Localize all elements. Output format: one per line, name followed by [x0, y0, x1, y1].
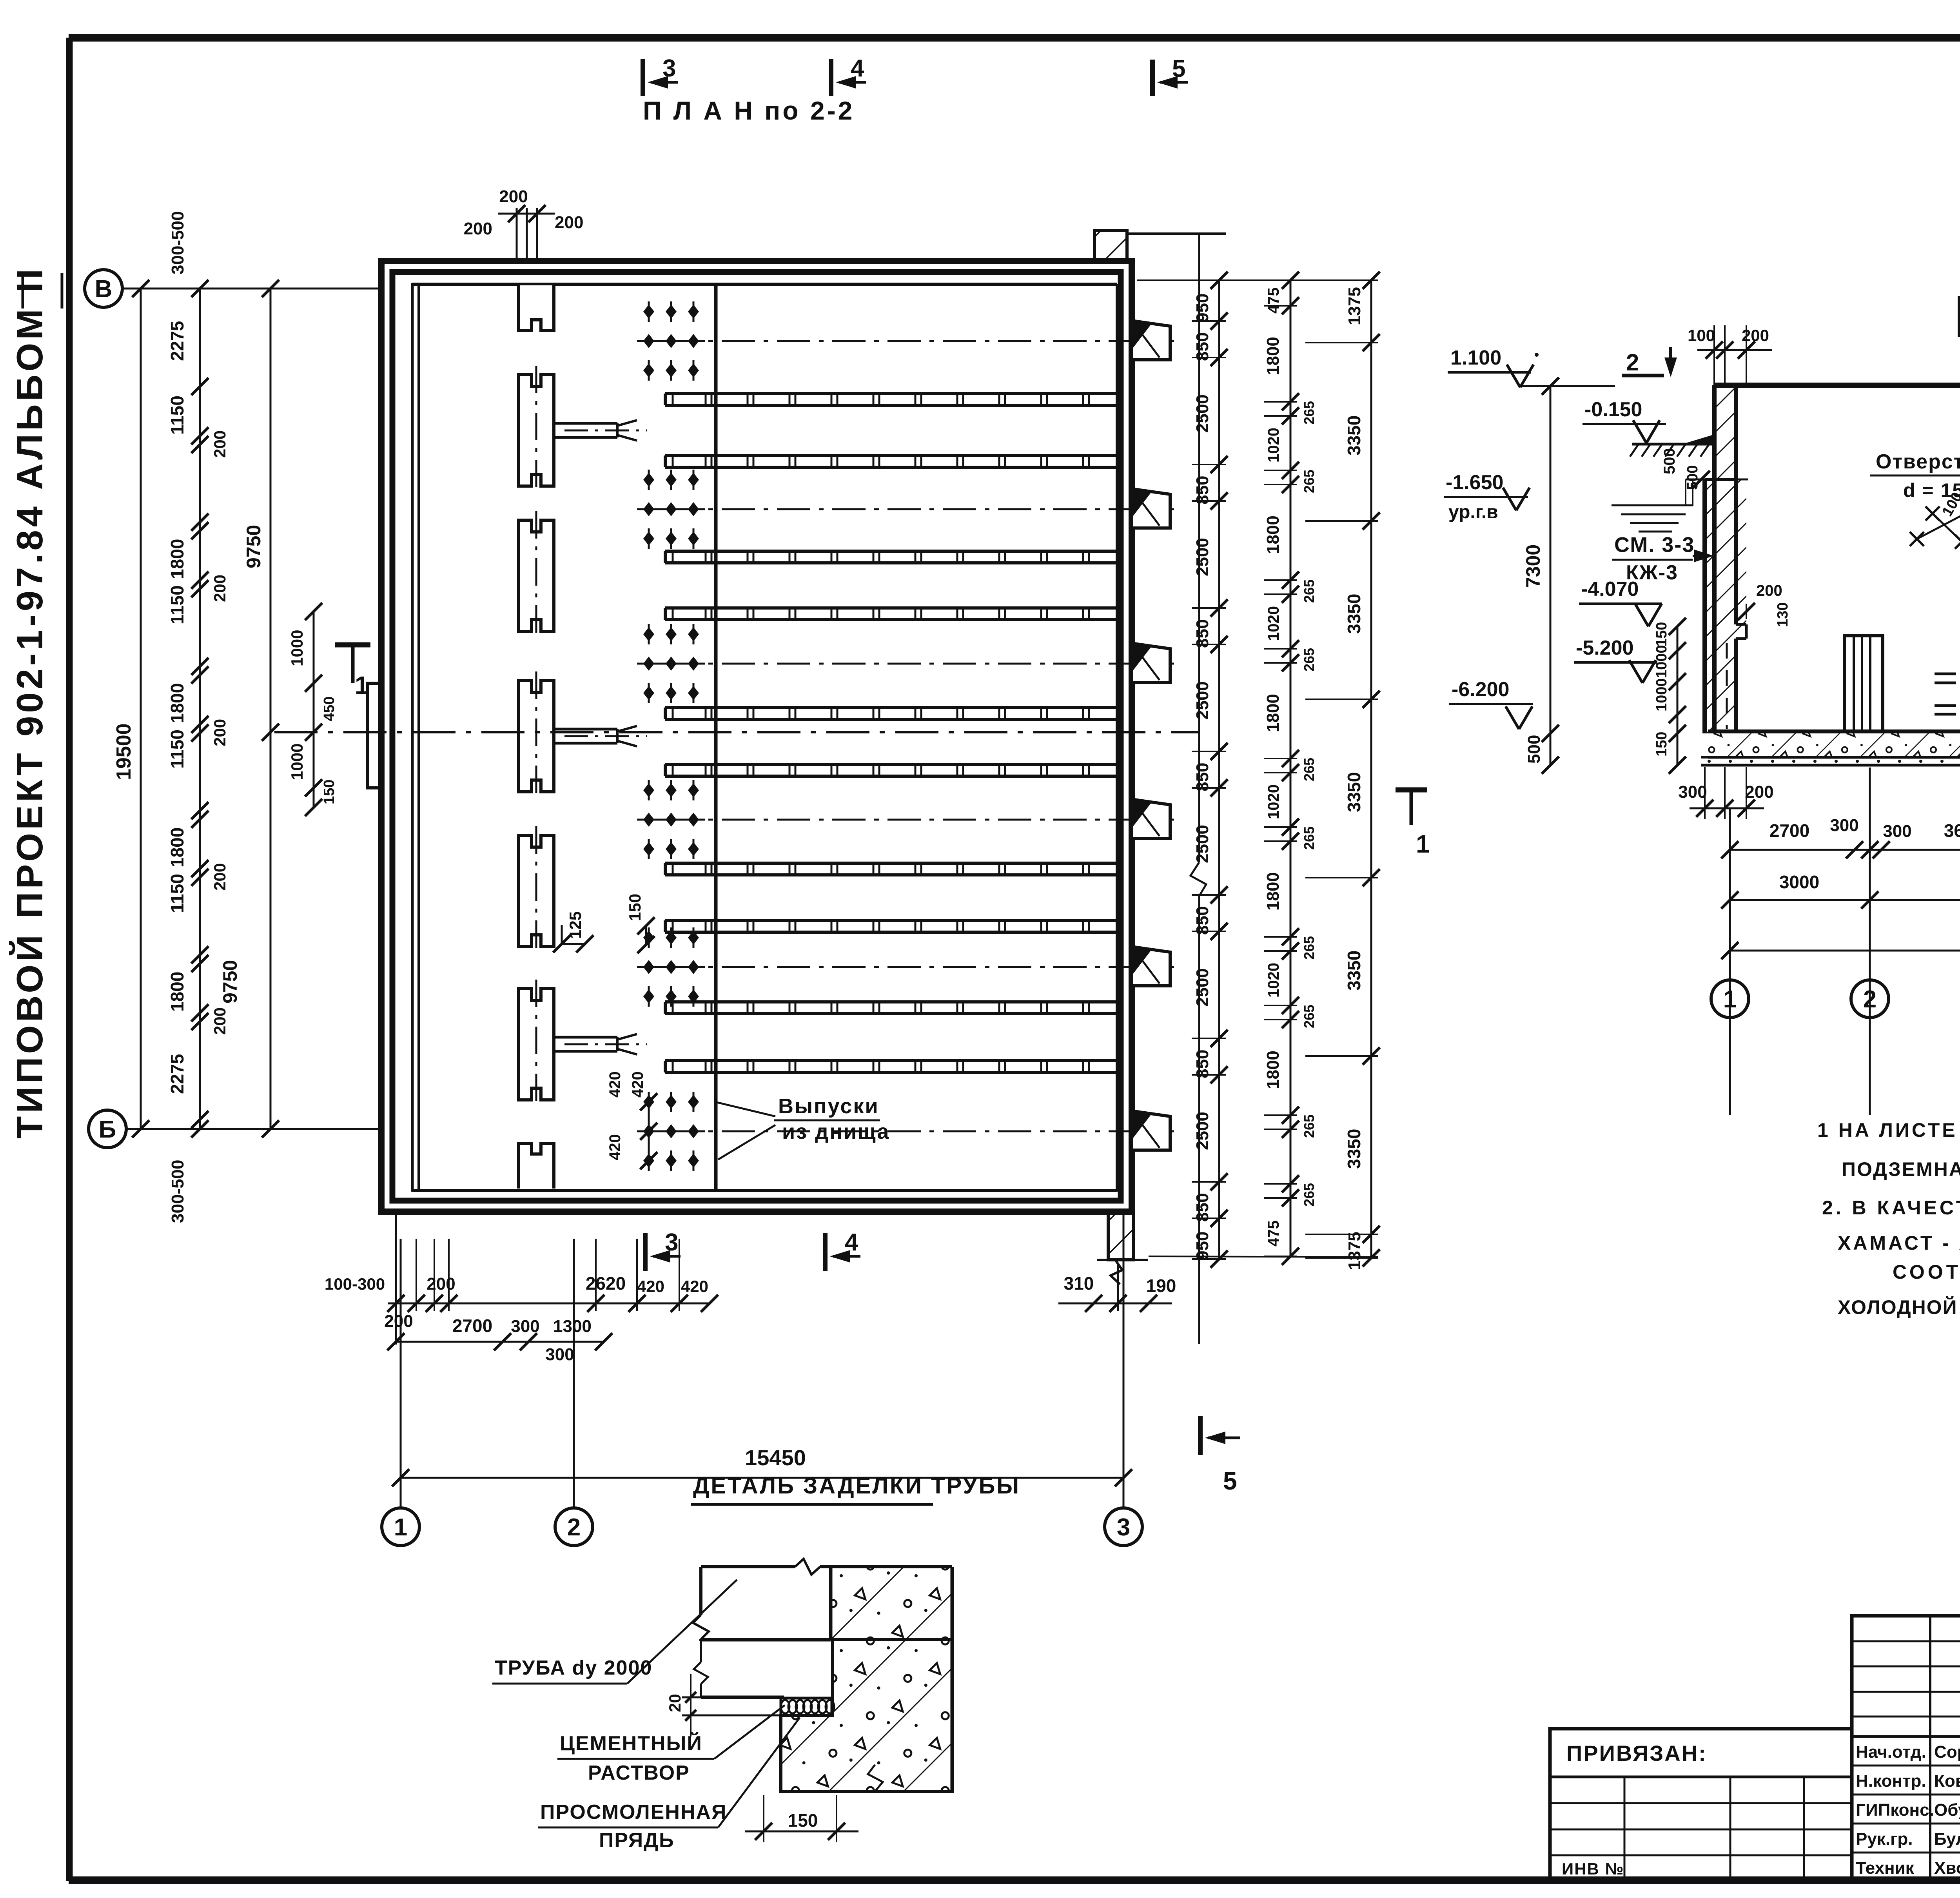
axis circle 3 plan: [1105, 1508, 1142, 1546]
svg-text:1 НА ЛИСТЕ УСЛОВНО ПОК: 1 НА ЛИСТЕ УСЛОВНО ПОКАЗАНА МОНОЛИТНАЯ: [1817, 1119, 1960, 1141]
section floor slab: [1708, 729, 1960, 733]
svg-text:2275: 2275: [167, 1054, 187, 1094]
svg-text:265: 265: [1301, 401, 1317, 425]
plan channel centerline 2: [666, 508, 1174, 510]
section ground bench wedge: [1686, 435, 1715, 444]
section dim 500 wall step: [1686, 479, 1748, 481]
plan inner wall line top: [412, 283, 1117, 286]
section bottom chain row3: [1730, 950, 1960, 952]
axis circle 1 plan: [382, 1508, 419, 1546]
svg-text:ТИПОВОЙ ПРОЕКТ 902-1-97.84: ТИПОВОЙ ПРОЕКТ 902-1-97.84 АЛЬБОМ II: [9, 266, 50, 1139]
section left wall hatch: [1714, 385, 1736, 479]
svg-text:265: 265: [1301, 936, 1317, 960]
svg-text:Б: Б: [99, 1116, 116, 1143]
svg-text:-6.200: -6.200: [1452, 678, 1509, 701]
plan column 7 (half, bottom): [519, 1143, 554, 1189]
svg-text:1800: 1800: [1263, 515, 1283, 554]
detail wall top edge: [701, 1565, 795, 1568]
svg-text:420: 420: [606, 1071, 624, 1098]
plan channel bar 1: [665, 392, 1117, 395]
svg-text:-0.150: -0.150: [1584, 398, 1642, 421]
svg-text:1150: 1150: [167, 585, 187, 624]
svg-text:150: 150: [1653, 622, 1670, 647]
dimension chain plan bottom row2: [396, 1341, 604, 1343]
svg-text:265: 265: [1301, 648, 1317, 671]
plan column 1 (half, top): [519, 285, 554, 330]
plan inner wall line bottom: [412, 1189, 1117, 1192]
dimension chain 9750: [270, 289, 272, 1129]
svg-text:1300: 1300: [553, 1317, 592, 1336]
svg-text:2500: 2500: [1193, 538, 1212, 576]
svg-text:СООТВЕТСТВИИ С "РУКОВОДСТВО: СООТВЕТСТВИИ С "РУКОВОДСТВОМ ПО УСТРОЙСТ…: [1893, 1261, 1960, 1283]
detail lower bottom break: [868, 1765, 883, 1791]
detail right edge: [951, 1567, 954, 1791]
detail pipe bottom line: [701, 1696, 784, 1699]
signature table: [1852, 1616, 1960, 1880]
svg-text:150: 150: [626, 894, 644, 921]
svg-text:1800: 1800: [1263, 1051, 1283, 1089]
svg-text:Техник: Техник: [1856, 1858, 1915, 1878]
svg-text:125: 125: [566, 911, 584, 939]
svg-text:300-500: 300-500: [168, 211, 187, 274]
plan outlet trapezoid 4: [1132, 799, 1170, 838]
extension lines to right chains: [1192, 279, 1226, 281]
plan column 2 tee stem: [554, 422, 617, 425]
dimension pilaster chain: [313, 611, 315, 807]
svg-text:2500: 2500: [1193, 1112, 1212, 1150]
section left wall inner notch: [1736, 623, 1746, 626]
section flag 4 top: [829, 59, 833, 96]
svg-text:5: 5: [1172, 55, 1185, 82]
plan channel bar 6: [665, 763, 1117, 766]
plan bottom extension lines: [395, 1215, 397, 1345]
svg-text:1: 1: [1723, 986, 1737, 1013]
svg-text:200: 200: [211, 575, 229, 602]
section left wall inner line upper: [1734, 385, 1738, 479]
svg-text:из днища: из днища: [782, 1120, 890, 1143]
svg-text:850: 850: [1193, 1193, 1212, 1222]
svg-text:ДЕТАЛЬ ЗАДЕЛКИ ТРУБЫ: ДЕТАЛЬ ЗАДЕЛКИ ТРУБЫ: [693, 1473, 1020, 1499]
plan outlet trapezoid 1: [1132, 321, 1170, 360]
svg-text:200: 200: [1756, 582, 1782, 599]
svg-text:150: 150: [321, 780, 338, 804]
axis circle 2 section: [1851, 980, 1889, 1018]
plan channel bar 10: [665, 1059, 1117, 1062]
section flag 3 bottom: [643, 1233, 648, 1271]
svg-text:1800: 1800: [1263, 337, 1283, 375]
svg-text:1: 1: [355, 671, 369, 699]
svg-text:Рук.гр.: Рук.гр.: [1856, 1829, 1913, 1849]
svg-text:ГИПконс.: ГИПконс.: [1856, 1800, 1934, 1820]
detail pipe left break: [694, 1662, 708, 1684]
section flag 3 top: [1958, 296, 1960, 337]
plan channel centerline 3: [666, 663, 1174, 665]
svg-text:1020: 1020: [1265, 963, 1282, 998]
svg-text:200: 200: [1745, 782, 1773, 802]
svg-text:3650: 3650: [1944, 820, 1960, 841]
detail concrete lower block: [781, 1640, 952, 1791]
detail left edge: [699, 1567, 702, 1615]
plan channel centerline 1: [666, 340, 1174, 342]
axis circle В: [85, 270, 122, 307]
plan outlet trapezoid 6: [1132, 1111, 1170, 1150]
section flag 1 left: [335, 642, 370, 648]
svg-text:300: 300: [1883, 822, 1911, 841]
svg-text:950: 950: [1193, 294, 1212, 322]
svg-text:265: 265: [1301, 1183, 1317, 1207]
svg-text:1150: 1150: [167, 874, 187, 913]
plan column 3: [519, 520, 554, 631]
svg-text:150: 150: [788, 1810, 818, 1831]
section bottom chain row1: [1730, 849, 1960, 851]
axis circle Б: [89, 1110, 126, 1148]
dimension chain A right of plan: [1218, 280, 1220, 1259]
svg-text:1800: 1800: [167, 972, 187, 1012]
plan outer wall inner line: [392, 272, 1121, 1201]
plan anchor dot cluster 4: [643, 783, 654, 797]
svg-text:1000: 1000: [1653, 645, 1670, 678]
svg-text:420: 420: [637, 1277, 664, 1296]
detail dim 20: [682, 1697, 701, 1698]
section flag 3 top: [641, 59, 645, 96]
svg-text:3350: 3350: [1344, 594, 1364, 634]
section flag 5 top right: [1150, 60, 1155, 96]
svg-text:1000: 1000: [288, 630, 306, 666]
svg-text:850: 850: [1193, 1050, 1212, 1078]
pump block comb marks: [1935, 673, 1956, 675]
section left wall inner face lower: [1734, 479, 1738, 624]
svg-text:100: 100: [1688, 326, 1715, 345]
plan anchor dot cluster 1: [643, 305, 654, 319]
svg-text:1800: 1800: [167, 827, 187, 867]
plan left wall pilaster: [368, 683, 381, 788]
svg-text:300: 300: [511, 1317, 539, 1336]
svg-text:300-500: 300-500: [168, 1160, 187, 1223]
svg-text:450: 450: [321, 697, 338, 721]
svg-text:1: 1: [1416, 830, 1430, 858]
dimension chain plan bottom row1: [388, 1303, 710, 1305]
axis extension lines to circles: [400, 1239, 402, 1507]
svg-text:850: 850: [1193, 906, 1212, 935]
plan channel bar 9: [665, 1000, 1117, 1003]
svg-text:500: 500: [1661, 448, 1678, 474]
plan anchor dot cluster 3: [643, 627, 654, 641]
plan channel bar 5: [665, 706, 1117, 709]
plan column 4 tee stem: [554, 728, 617, 731]
plan channel bar 4: [665, 606, 1117, 610]
svg-text:В: В: [95, 276, 113, 303]
sheet frame bottom border: [69, 1876, 1960, 1884]
dimension 500 vertical bottom: [1550, 733, 1552, 765]
svg-text:3: 3: [1117, 1514, 1130, 1541]
svg-text:2. В КАЧЕСТВЕ ГИДРОИЗОЛЯЦИ: 2. В КАЧЕСТВЕ ГИДРОИЗОЛЯЦИИ ПРИНЯТЬ: [1822, 1197, 1960, 1219]
plan column 6: [519, 989, 554, 1100]
svg-text:1.100: 1.100: [1450, 347, 1501, 369]
plan bottom-right wall stub hatched: [1108, 1212, 1134, 1260]
svg-text:200: 200: [211, 863, 229, 891]
svg-text:265: 265: [1301, 1114, 1317, 1138]
svg-text:200: 200: [211, 719, 229, 746]
svg-text:3350: 3350: [1344, 951, 1364, 991]
svg-text:475: 475: [1265, 1220, 1282, 1247]
svg-text:19500: 19500: [113, 723, 135, 780]
svg-text:20: 20: [666, 1694, 684, 1712]
svg-text:ЦЕМЕНТНЫЙ: ЦЕМЕНТНЫЙ: [560, 1732, 702, 1755]
svg-text:850: 850: [1193, 476, 1212, 504]
svg-text:190: 190: [1146, 1276, 1176, 1296]
plan anchor dot cluster 6: [643, 1095, 654, 1109]
svg-text:d = 15 мм: d = 15 мм: [1903, 479, 1960, 501]
detail concrete upper right: [831, 1567, 952, 1640]
dimension 15450 plan: [401, 1477, 1123, 1479]
svg-text:850: 850: [1193, 763, 1212, 791]
plan inner wall line left a: [411, 283, 414, 1192]
svg-text:П Л А Н по 2-2: П Л А Н по 2-2: [643, 96, 855, 125]
svg-text:Сорокин: Сорокин: [1934, 1742, 1960, 1762]
plan outlet trapezoid 3: [1132, 643, 1170, 682]
svg-text:ХАМАСТ - ХОЛОДНО - АСФАЛЬТОВАЯ: ХАМАСТ - ХОЛОДНО - АСФАЛЬТОВАЯ МАСТИКА Б…: [1838, 1232, 1960, 1254]
svg-text:2500: 2500: [1193, 825, 1212, 863]
svg-text:1800: 1800: [1263, 694, 1283, 732]
svg-text:ПОДЗЕМНАЯ ЧАСТЬ ШНЕКОВ: ПОДЗЕМНАЯ ЧАСТЬ ШНЕКОВОЙ НАСОСНОЙ СТАНЦИ…: [1842, 1158, 1960, 1180]
svg-text:ПРОСМОЛЕННАЯ: ПРОСМОЛЕННАЯ: [540, 1801, 727, 1824]
plan channel bar 3: [665, 550, 1117, 553]
plan anchor dot cluster 2: [643, 473, 654, 487]
section wall dim chain left inner: [1677, 626, 1679, 765]
svg-text:150: 150: [1653, 732, 1670, 757]
dimension 310 190 bottom right: [1058, 1303, 1172, 1305]
svg-text:РАСТВОР: РАСТВОР: [588, 1762, 690, 1784]
svg-text:200: 200: [384, 1312, 413, 1331]
svg-text:850: 850: [1193, 332, 1212, 361]
svg-text:7300: 7300: [1522, 544, 1544, 588]
svg-text:1020: 1020: [1265, 606, 1282, 641]
svg-text:1375: 1375: [1345, 1232, 1364, 1270]
svg-text:475: 475: [1265, 287, 1282, 314]
svg-text:3: 3: [662, 55, 676, 82]
svg-text:Обух: Обух: [1934, 1800, 1960, 1820]
plan column 6 tee stem: [554, 1036, 617, 1039]
svg-text:2500: 2500: [1193, 968, 1212, 1007]
svg-text:1800: 1800: [1263, 872, 1283, 911]
svg-text:9750: 9750: [243, 525, 265, 568]
svg-text:Н.контр.: Н.контр.: [1856, 1771, 1926, 1791]
svg-text:-1.650: -1.650: [1446, 471, 1503, 494]
svg-text:1800: 1800: [167, 683, 187, 723]
svg-text:200: 200: [555, 213, 583, 232]
svg-text:265: 265: [1301, 826, 1317, 850]
plan column 4: [519, 680, 554, 792]
svg-text:300: 300: [1830, 816, 1858, 835]
svg-text:3: 3: [665, 1229, 678, 1256]
svg-text:ПРИВЯЗАН:: ПРИВЯЗАН:: [1566, 1741, 1707, 1766]
dimension 7300 vertical: [1550, 386, 1552, 733]
svg-text:300: 300: [1678, 782, 1707, 802]
album numeral II serif bars: [22, 273, 24, 308]
svg-text:2500: 2500: [1193, 394, 1212, 433]
svg-text:3000: 3000: [1779, 872, 1819, 892]
plan horizontal main axis centerline: [274, 731, 1200, 733]
svg-text:Нач.отд.: Нач.отд.: [1856, 1742, 1926, 1762]
svg-text:9750: 9750: [219, 960, 241, 1003]
section top slab line: [1714, 383, 1960, 388]
plan channel bar 8: [665, 919, 1117, 922]
svg-text:1375: 1375: [1345, 287, 1364, 325]
dimension chain B right of plan: [1290, 280, 1292, 1256]
svg-text:130: 130: [1775, 602, 1791, 627]
svg-text:265: 265: [1301, 470, 1317, 493]
svg-text:1000: 1000: [288, 744, 306, 780]
svg-text:300: 300: [545, 1345, 574, 1364]
pump block: [1844, 636, 1883, 731]
svg-text:200: 200: [464, 219, 492, 238]
svg-text:1150: 1150: [167, 396, 187, 435]
svg-text:ХОЛОДНОЙ АСФАЛЬТОВОЙ ГИДРОИ: ХОЛОДНОЙ АСФАЛЬТОВОЙ ГИДРОИЗОЛЯЦИИ ": [1838, 1296, 1960, 1318]
svg-text:200: 200: [499, 187, 528, 206]
svg-text:265: 265: [1301, 758, 1317, 781]
svg-text:200: 200: [1742, 326, 1769, 345]
svg-text:СМ. 3-3: СМ. 3-3: [1614, 533, 1695, 557]
svg-text:2620: 2620: [586, 1273, 626, 1294]
plan central dividing wall line: [714, 284, 718, 1190]
section ground water level lines: [1612, 504, 1693, 506]
section left wall widened outer face: [1702, 479, 1707, 733]
svg-text:850: 850: [1193, 619, 1212, 648]
svg-text:1150: 1150: [167, 729, 187, 769]
svg-text:2700: 2700: [452, 1316, 492, 1336]
section hidden line in wall: [1726, 643, 1728, 729]
svg-text:265: 265: [1301, 579, 1317, 603]
section left wall outer line upper: [1712, 385, 1717, 733]
privyazan table: [1550, 1729, 1852, 1880]
plan inner wall line left b: [417, 283, 420, 1192]
section top dims 100 200: [1697, 349, 1772, 351]
svg-text:200: 200: [426, 1274, 455, 1294]
section flag 1 right: [1396, 788, 1427, 793]
svg-text:Отверстие: Отверстие: [1876, 450, 1960, 473]
dimension 200 group top: [516, 208, 518, 260]
svg-text:2: 2: [1863, 986, 1877, 1013]
section floor base slab: [1701, 756, 1960, 758]
svg-text:200: 200: [211, 430, 229, 458]
svg-text:420: 420: [606, 1134, 624, 1160]
plan channel centerline 5: [666, 966, 1174, 968]
svg-text:500: 500: [1524, 735, 1544, 764]
dimension chain left fine: [199, 289, 201, 1129]
svg-text:Булатова: Булатова: [1934, 1829, 1960, 1849]
detail seal coil: [781, 1698, 832, 1715]
section flag 4 bottom: [823, 1233, 828, 1271]
svg-text:200: 200: [211, 1007, 229, 1035]
plan anchor dot cluster 5: [643, 931, 654, 945]
incline long dimension 10460: [1917, 251, 1960, 539]
svg-text:265: 265: [1301, 1005, 1317, 1028]
axis circle 1 section: [1711, 980, 1749, 1018]
plan outer wall rectangle: [381, 261, 1132, 1212]
svg-text:3350: 3350: [1344, 416, 1364, 455]
detail pipe top line: [701, 1638, 831, 1642]
plan channel bar 7: [665, 862, 1117, 865]
plan outlet trapezoid 2: [1132, 489, 1170, 528]
plan channel centerline 4: [666, 819, 1174, 821]
svg-text:ИНВ №: ИНВ №: [1562, 1860, 1624, 1878]
svg-text:Ковалинина: Ковалинина: [1934, 1771, 1960, 1791]
svg-text:ур.г.в: ур.г.в: [1448, 502, 1498, 523]
svg-text:1020: 1020: [1265, 784, 1282, 819]
svg-text:КЖ-3: КЖ-3: [1626, 561, 1678, 584]
plan outlet trapezoid 5: [1132, 947, 1170, 986]
svg-text:-5.200: -5.200: [1576, 637, 1633, 659]
sheet frame top border: [69, 34, 1960, 42]
detail dim 150: [763, 1795, 764, 1842]
section bottom chain row2: [1730, 899, 1960, 901]
svg-text:4: 4: [845, 1229, 858, 1256]
svg-text:Выпуски: Выпуски: [778, 1094, 879, 1118]
svg-text:5: 5: [1223, 1467, 1237, 1495]
svg-text:2500: 2500: [1193, 681, 1212, 720]
plan column 5: [519, 835, 554, 947]
svg-text:1: 1: [394, 1514, 407, 1541]
section bottom dim 300 200: [1690, 807, 1764, 809]
section flag 5 bottom right: [1198, 1416, 1203, 1455]
svg-text:420: 420: [629, 1071, 646, 1098]
svg-text:ТРУБА dу 2000: ТРУБА dу 2000: [495, 1657, 652, 1679]
svg-text:2700: 2700: [1769, 820, 1809, 841]
dimension 19500 vertical: [140, 289, 142, 1129]
svg-text:3350: 3350: [1344, 1129, 1364, 1169]
svg-text:2275: 2275: [167, 321, 187, 361]
svg-text:ПРЯДЬ: ПРЯДЬ: [599, 1829, 675, 1852]
plan right extension boundary line: [1198, 234, 1200, 862]
plan channel bar 2: [665, 454, 1117, 457]
dimension chain C right of plan: [1370, 280, 1372, 1258]
sheet frame left border: [66, 38, 73, 1881]
plan channel centerline 6: [666, 1130, 1174, 1132]
svg-text:2: 2: [1626, 349, 1639, 376]
svg-text:310: 310: [1064, 1273, 1094, 1294]
svg-text:1020: 1020: [1265, 428, 1282, 463]
svg-text:15450: 15450: [745, 1445, 806, 1470]
plan inner wall line right: [1116, 284, 1118, 1192]
axis circle 2 plan: [555, 1508, 593, 1546]
svg-text:2: 2: [567, 1514, 581, 1541]
plan column 2: [519, 375, 554, 486]
svg-text:Хвостова: Хвостова: [1934, 1858, 1960, 1878]
svg-text:100-300: 100-300: [325, 1275, 385, 1293]
detail concrete divider vertical: [829, 1567, 833, 1640]
svg-text:3350: 3350: [1344, 772, 1364, 812]
section ground line left: [1632, 443, 1716, 446]
incline small dims 100 50 170: [1933, 514, 1960, 613]
svg-text:1800: 1800: [167, 539, 187, 579]
plan top-right wall stub hatched: [1094, 230, 1127, 261]
section axis extension lines: [1729, 808, 1731, 1115]
svg-text:4: 4: [851, 55, 864, 82]
svg-text:420: 420: [681, 1277, 708, 1296]
svg-text:1000: 1000: [1653, 678, 1670, 711]
